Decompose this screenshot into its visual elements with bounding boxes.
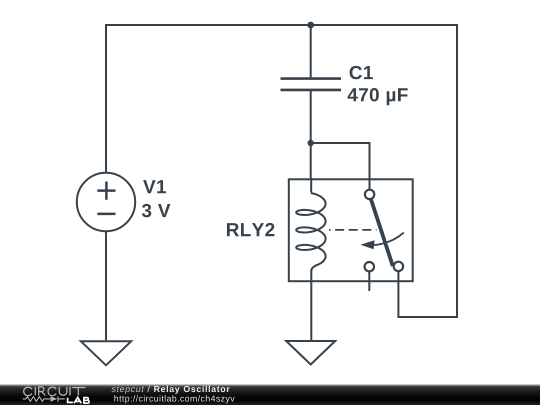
label 3 V bbox=[142, 204, 171, 217]
wire V1 top vertical bbox=[105, 25, 107, 173]
relay coil bbox=[296, 178, 325, 271]
wire top horizontal bbox=[105, 24, 457, 26]
footer bar bbox=[0, 384, 540, 405]
wire branch to switch bbox=[311, 143, 370, 190]
label V1 bbox=[143, 180, 166, 193]
wire right vertical bbox=[456, 24, 458, 317]
voltage source V1 bbox=[77, 173, 135, 231]
relay RLY2 box bbox=[289, 179, 413, 281]
relay actuate dashed line bbox=[329, 229, 377, 231]
ground V1 bbox=[81, 341, 131, 365]
wire cap top lead bbox=[310, 25, 312, 77]
relay switch common contact bbox=[365, 190, 374, 199]
node junction mid bbox=[308, 140, 314, 146]
relay contact NO bbox=[394, 262, 403, 271]
node junction top bbox=[307, 22, 314, 29]
wire cap bottom lead bbox=[310, 91, 312, 178]
wire NO contact to right bbox=[398, 272, 458, 317]
ground RLY2 bbox=[286, 341, 335, 365]
label 470 uF bbox=[348, 88, 408, 105]
wire V1 bottom bbox=[105, 231, 107, 341]
relay switch blade bbox=[371, 199, 393, 266]
logo CIRCUIT LAB bbox=[0, 383, 100, 405]
label RLY2 bbox=[227, 223, 274, 236]
capacitor C1 plates bbox=[281, 79, 342, 90]
V1 plus bbox=[97, 182, 115, 200]
V1 minus bbox=[97, 213, 115, 216]
wire NC stub bbox=[368, 272, 370, 292]
label C1 bbox=[350, 66, 373, 79]
relay contact NC stub bbox=[365, 262, 374, 271]
relay actuate arrow bbox=[373, 233, 404, 246]
wire relay coil to ground bbox=[310, 270, 312, 341]
